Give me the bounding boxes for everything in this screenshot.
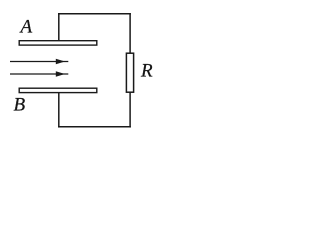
resistor R body xyxy=(126,53,133,92)
wire right vertical upper xyxy=(129,14,131,53)
arrow (beam) lower xyxy=(10,71,68,77)
capacitor plate A xyxy=(19,41,97,45)
svg-text:A: A xyxy=(19,17,33,38)
arrow (beam) upper xyxy=(10,59,68,65)
wire bottom horizontal xyxy=(59,126,130,128)
svg-text:R: R xyxy=(140,60,153,81)
capacitor plate B xyxy=(19,88,97,92)
wire top horizontal xyxy=(59,13,130,15)
wire left vertical from plate B xyxy=(58,93,60,127)
svg-text:B: B xyxy=(14,95,26,116)
wire right vertical lower xyxy=(129,92,131,127)
wire left vertical to plate A xyxy=(58,14,60,41)
